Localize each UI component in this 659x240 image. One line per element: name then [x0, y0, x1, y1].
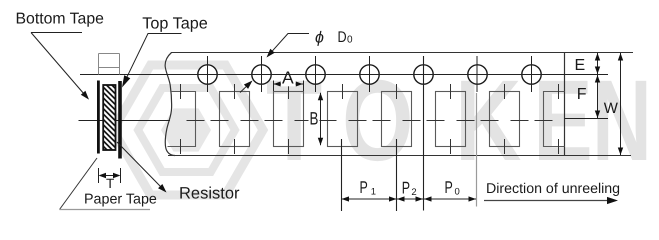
B dimension: [320, 93, 322, 146]
P2 dimension: [397, 198, 424, 200]
svg-text:E: E: [575, 57, 586, 74]
Paper Tape leader: [60, 158, 98, 210]
W dimension: [620, 53, 622, 155]
svg-text:P: P: [445, 178, 453, 197]
cross-section top rect (tape above hole): [99, 54, 120, 75]
svg-text:F: F: [577, 86, 587, 103]
P1/P2 extension line (pocket 5 centre): [396, 139, 398, 211]
P0 extension line (hole 6, gray): [476, 56, 478, 92]
tape right edge: [564, 52, 566, 156]
svg-text:Paper Tape: Paper Tape: [84, 192, 157, 208]
E dimension: [597, 53, 599, 74]
svg-text:D: D: [338, 29, 347, 46]
paper tape hatched rect: [103, 85, 115, 150]
bottom tape bar (left): [97, 81, 100, 154]
svg-text:0: 0: [347, 35, 353, 46]
pocket edge ticks (horizontal, mid height): [187, 120, 553, 122]
svg-text:P: P: [402, 178, 410, 197]
Paper Tape underline: [60, 209, 151, 211]
pocket centre ticks (vertical, top and bottom edges): [181, 84, 559, 154]
pocket 6: [436, 92, 466, 147]
svg-text:1: 1: [371, 186, 376, 197]
svg-text:2: 2: [411, 187, 416, 198]
svg-text:N: N: [592, 57, 652, 185]
svg-text:Bottom Tape: Bottom Tape: [16, 10, 105, 27]
P1 dimension: [342, 198, 397, 200]
pocket 7: [490, 92, 520, 147]
pocket 4: [328, 92, 358, 147]
svg-text:Top Tape: Top Tape: [142, 14, 207, 32]
P0 dimension: [424, 198, 476, 200]
T dimension: [99, 168, 121, 183]
pocket 2: [220, 92, 250, 147]
svg-text:Direction of unreeling: Direction of unreeling: [486, 181, 620, 197]
tape top edge: [171, 52, 633, 54]
sprocket hole vertical ticks: [208, 56, 532, 92]
pocket centreline left extension: [79, 120, 171, 122]
pocket-to-hole arrow: [240, 86, 247, 93]
Bottom Tape leader: [31, 32, 82, 34]
Resistor leader: [117, 142, 161, 187]
Top Tape leader: [125, 34, 182, 83]
pocket 5: [382, 92, 412, 147]
watermark logo hexagons: [113, 65, 263, 195]
svg-text:T: T: [106, 176, 114, 191]
svg-text:A: A: [282, 67, 294, 87]
tape bottom edge: [168, 155, 631, 157]
svg-text:ϕ: ϕ: [315, 30, 324, 47]
svg-text:P: P: [360, 178, 368, 197]
pocket 1 (partial at wavy edge): [168, 92, 196, 147]
svg-text:B: B: [310, 108, 319, 128]
tape left wavy break edge: [165, 53, 175, 156]
phi D0 leader: [269, 34, 309, 55]
svg-text:0: 0: [455, 186, 460, 197]
watermark TOKEN text: [266, 57, 652, 185]
P1 extension line (pocket 4 centre): [341, 139, 343, 211]
sprocket hole centreline: [80, 74, 608, 76]
A dimension: [274, 81, 304, 92]
top tape bar (right): [118, 81, 122, 159]
pocket 3: [274, 92, 304, 147]
svg-text:W: W: [604, 100, 619, 117]
sprocket holes D0: [198, 65, 541, 84]
Direction of unreeling arrow: [484, 200, 610, 202]
P2/P0 extension line (hole 5 centre, long): [423, 56, 425, 211]
pocket 8 (partial at right edge): [544, 92, 565, 147]
F dimension: [597, 75, 599, 118]
svg-text:Resistor: Resistor: [179, 185, 240, 203]
